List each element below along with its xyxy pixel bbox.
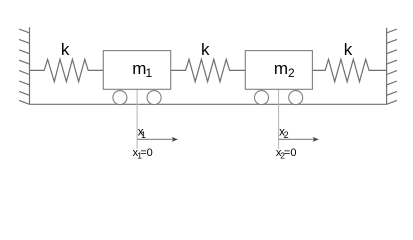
x1=0 label [133, 147, 153, 160]
wheel m2 right [289, 91, 303, 105]
left wall [19, 27, 29, 104]
svg-text:1: 1 [146, 66, 153, 80]
svg-text:k: k [344, 40, 353, 59]
mass m1 [103, 51, 170, 90]
wheel m2 left [255, 91, 269, 105]
x2=0 label [276, 147, 297, 160]
x2 reference line [278, 89, 280, 149]
mass m2 label [274, 59, 295, 80]
wheel m1 right [147, 91, 161, 105]
svg-text:k: k [201, 40, 210, 59]
svg-text:2: 2 [288, 66, 295, 80]
svg-text:m: m [132, 59, 146, 78]
x1 reference line [136, 89, 138, 149]
mass m1 label [132, 59, 152, 80]
x1 axis label [138, 126, 146, 140]
x2 axis label [279, 126, 289, 140]
wheel m1 left [113, 91, 127, 105]
svg-text:k: k [61, 40, 70, 59]
spring k1 [30, 59, 104, 81]
svg-text:=0: =0 [140, 147, 153, 159]
svg-text:2: 2 [284, 130, 289, 140]
svg-text:=0: =0 [284, 147, 297, 159]
ground [30, 103, 387, 105]
spring k2 [171, 59, 246, 81]
x2 axis arrow [279, 137, 319, 142]
mass m2 [245, 51, 312, 90]
spring k3 [312, 59, 386, 81]
x1 axis arrow [137, 137, 178, 142]
svg-text:1: 1 [141, 130, 146, 140]
right wall [387, 28, 397, 105]
svg-text:m: m [274, 59, 288, 78]
